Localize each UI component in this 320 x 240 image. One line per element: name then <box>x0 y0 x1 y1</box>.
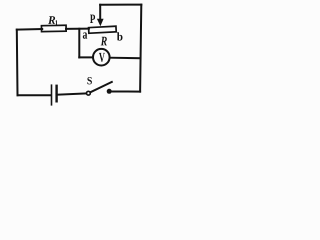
wire a-corner to voltmeter <box>79 56 93 58</box>
battery long plate <box>51 85 53 105</box>
label R1 subscript 1 <box>55 20 57 25</box>
wire junction a drop <box>78 29 80 58</box>
wire wiper top horizontal <box>100 4 141 6</box>
label terminal b <box>117 32 123 40</box>
label S (switch) <box>87 77 91 84</box>
wiper arrow shaft <box>99 5 101 20</box>
wire voltmeter to right vertical <box>110 57 141 60</box>
rheostat R body <box>89 26 117 33</box>
voltmeter U1 circle <box>93 49 110 66</box>
voltmeter letter V <box>99 53 105 62</box>
wire switch to bottom-right corner <box>111 91 140 93</box>
wire bottom-left horizontal <box>18 94 52 96</box>
switch contact dot <box>107 89 112 94</box>
switch lever <box>90 82 112 92</box>
wire right vertical <box>140 5 141 92</box>
label terminal a <box>83 32 87 38</box>
resistor R1 <box>41 25 66 31</box>
wire battery to switch <box>57 93 87 94</box>
wire left vertical <box>16 30 19 96</box>
label R1 (letter R) <box>48 16 55 24</box>
wire top-left horizontal <box>17 28 42 31</box>
label R (rheostat) <box>101 37 107 46</box>
battery short plate <box>55 86 57 102</box>
wire R1 to rheostat <box>66 28 89 30</box>
label P (wiper) <box>90 15 95 23</box>
wiper arrowhead <box>97 19 104 26</box>
switch pivot circle <box>87 91 91 95</box>
